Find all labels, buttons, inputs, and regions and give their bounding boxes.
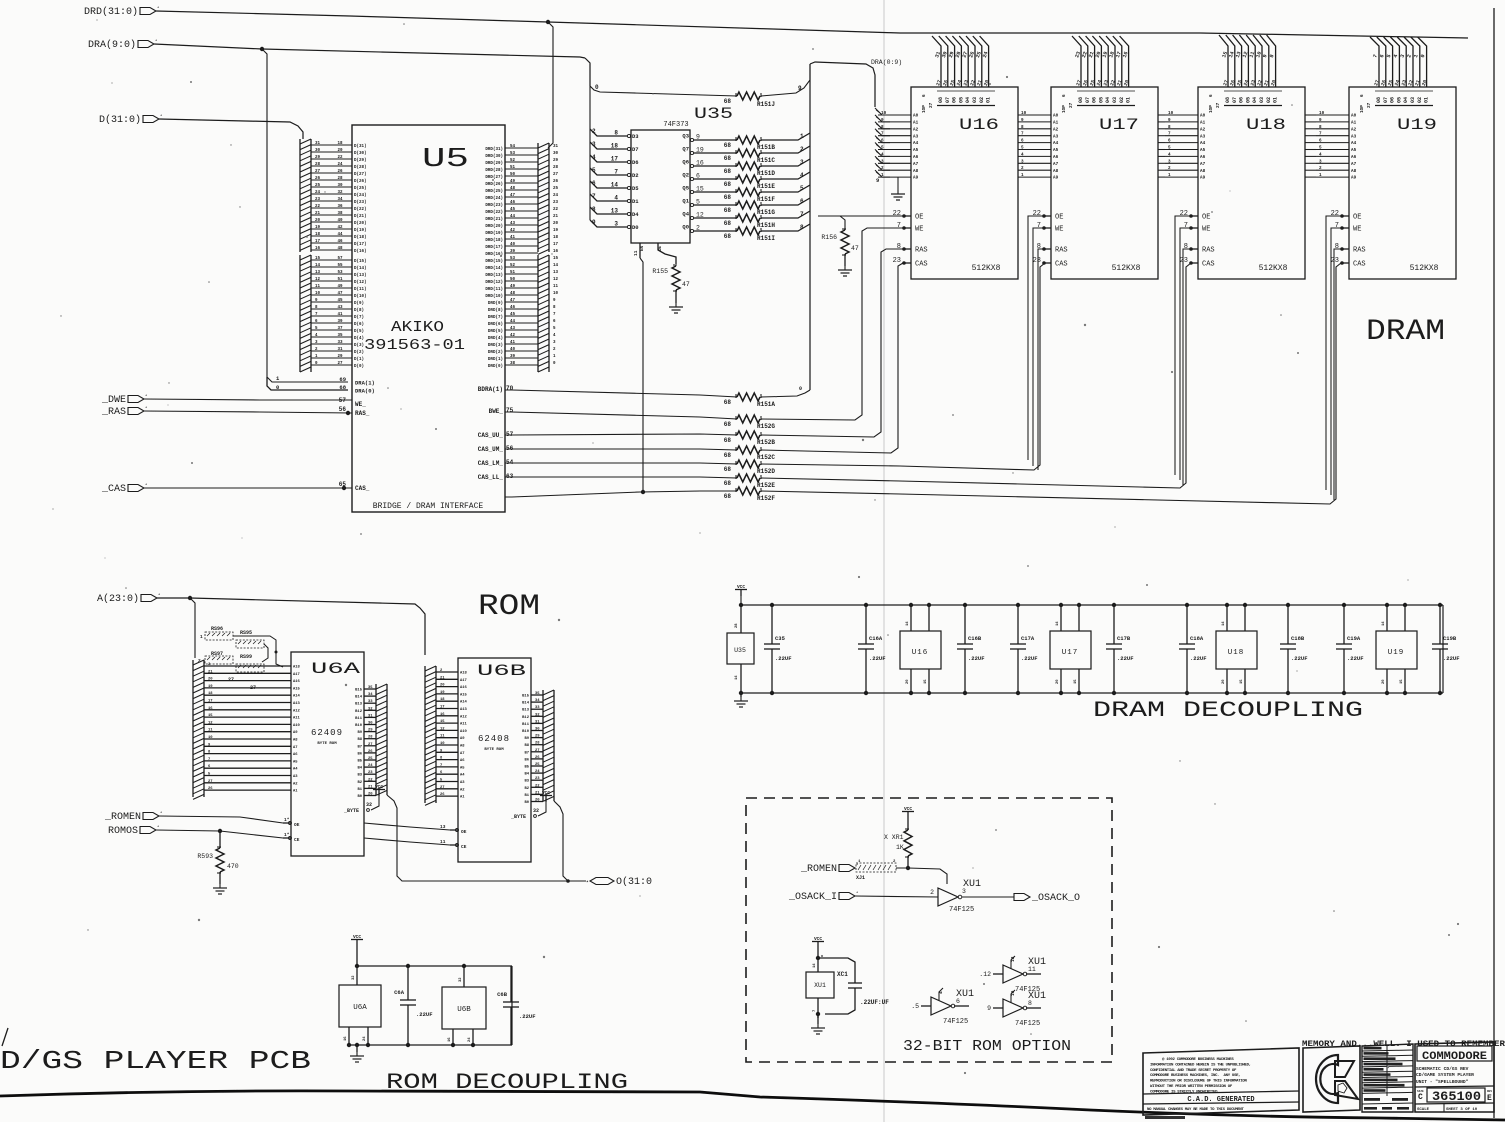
svg-text:9: 9 [1021,118,1024,123]
svg-text:C17B: C17B [1117,635,1131,642]
svg-text:15: 15 [440,720,445,724]
U6B address pins with bus ribbon [425,666,468,805]
svg-text:A4: A4 [293,768,298,772]
svg-text:7: 7 [897,222,901,230]
svg-text:62409: 62409 [311,728,343,738]
ROM decoupling right end [511,966,513,1045]
U5 left pins D(31:16) with bus ribbon [300,139,367,254]
IC U35 74F373 body [631,130,690,243]
svg-text:B7: B7 [357,745,362,749]
svg-text:D(18): D(18) [354,235,367,240]
svg-text:24: 24 [315,191,321,195]
svg-text:WITHOUT THE PRIOR WRITTEN PERM: WITHOUT THE PRIOR WRITTEN PERMISSION OF [1150,1085,1233,1089]
svg-text:A8: A8 [1200,169,1206,174]
ground at U16 NC pin [897,177,899,190]
svg-text:WE: WE [1353,226,1361,234]
svg-text:31: 31 [535,720,540,724]
wire _DWE to U5 WE_ [144,399,352,400]
svg-text:18: 18 [440,698,445,702]
svg-text:9: 9 [1168,118,1171,123]
svg-text:U5: U5 [422,145,469,175]
svg-text:A7: A7 [1053,162,1059,167]
U6A CE pin [283,837,291,839]
svg-text:03: 03 [1410,97,1416,103]
svg-text:44: 44 [337,233,343,237]
svg-text:A3: A3 [913,134,919,139]
svg-text:D0: D0 [632,224,639,231]
wire DRA bus bend down to U35 input fan [585,58,590,86]
DRAM IC U18 address pins A0-A9 [1165,111,1206,181]
svg-text:68: 68 [724,452,732,459]
svg-text:B3: B3 [357,774,362,778]
svg-text:A7: A7 [913,162,919,167]
svg-text:SCHEMATIC CD/GS REV: SCHEMATIC CD/GS REV [1416,1066,1469,1072]
svg-text:D(16): D(16) [354,249,367,254]
capacitor C6B .22UF [497,966,535,1045]
svg-text:13: 13 [553,271,559,275]
capacitor C6A .22UF [394,964,432,1047]
svg-text:DRD(29): DRD(29) [485,161,503,166]
svg-text:A4: A4 [1351,141,1357,146]
wire DRA drop to U5 DRA pins [262,49,348,382]
svg-text:20: 20 [337,149,343,153]
resistor R156 47 ohm pull on U16 OE line [818,216,859,266]
svg-text:1K: 1K [896,844,904,851]
svg-text:26: 26 [337,170,343,174]
svg-text:*: * [160,811,162,816]
svg-text:20: 20 [368,793,373,797]
title block scale and sheet row [1415,1103,1494,1112]
svg-text:R151A: R151A [757,401,775,408]
svg-text:05: 05 [1098,97,1104,103]
svg-text:07: 07 [1232,97,1238,103]
capacitor C19A .22UF [1336,603,1364,695]
svg-text:D(2): D(2) [354,350,364,355]
svg-text:18: 18 [337,142,343,146]
svg-text:A5: A5 [1053,148,1059,153]
svg-text:U6A: U6A [353,1004,367,1012]
svg-text:B8: B8 [524,744,529,748]
svg-text:A3: A3 [1351,134,1357,139]
svg-text:XC1: XC1 [837,971,848,978]
svg-text:51: 51 [337,278,343,282]
svg-text:A6: A6 [913,155,919,160]
ground below XU1 [816,1012,820,1016]
svg-text:D4: D4 [632,211,639,218]
svg-text:27: 27 [1069,102,1074,108]
svg-text:DRD(8): DRD(8) [488,308,503,313]
tri-state buffer XU1 gate C [979,956,1046,994]
svg-text:D(15): D(15) [354,259,367,264]
svg-text:6: 6 [1319,139,1322,144]
svg-text:DRD(2): DRD(2) [488,350,503,355]
jumper XJ1 [856,860,896,881]
svg-text:33: 33 [368,700,373,704]
DRAM IC U19 top pin name column labels [1360,91,1433,113]
svg-text:23: 23 [1331,257,1339,265]
svg-text:B14: B14 [522,702,530,706]
svg-text:07: 07 [945,97,951,103]
svg-text:01: 01 [1273,97,1279,103]
svg-text:15: 15 [924,679,928,684]
svg-text:DRD(28): DRD(28) [485,168,503,173]
svg-text:UNIT - "SPELLBOUND": UNIT - "SPELLBOUND" [1416,1079,1469,1085]
svg-text:B0: B0 [524,801,529,805]
svg-text:_BYTE: _BYTE [510,814,526,820]
tri-state buffer XU1 gate B [911,988,974,1026]
svg-text:9: 9 [987,1005,991,1012]
svg-text:22: 22 [368,778,373,782]
svg-text:WE_: WE_ [355,401,366,408]
svg-text:8: 8 [1037,243,1041,251]
svg-text:D(3): D(3) [354,343,364,348]
ground below R155 [675,290,677,303]
svg-text:7: 7 [800,211,804,218]
svg-text:B3: B3 [524,780,529,784]
svg-text:0: 0 [276,384,279,391]
svg-text:74F125: 74F125 [943,1018,968,1026]
capacitor C35 .22UF [764,603,792,695]
wire U35 EN down to R152F row [640,258,643,492]
svg-text:16: 16 [344,1036,348,1041]
svg-text:WE: WE [1055,226,1063,234]
ROM decoupling top rail [357,965,512,967]
junction R152F line with U35 EN riser [641,490,645,494]
DRAM IC U17 512KX8 body [1051,87,1158,279]
svg-text:46: 46 [510,306,516,310]
svg-text:ROM DECOUPLING: ROM DECOUPLING [386,1070,628,1095]
svg-text:2: 2 [800,146,804,153]
svg-text:A8: A8 [913,169,919,174]
title block drawing number 365100 [1415,1086,1494,1104]
svg-text:8: 8 [1168,125,1171,130]
svg-text:42: 42 [510,229,516,233]
svg-text:A9: A9 [1200,176,1206,181]
svg-text:R151C: R151C [757,157,775,164]
svg-text:DRD(15): DRD(15) [485,259,503,264]
svg-text:391563-01: 391563-01 [364,337,465,354]
svg-text:04: 04 [965,97,971,103]
svg-text:41: 41 [510,341,516,345]
svg-text:D(8): D(8) [354,308,364,313]
svg-text:25: 25 [315,184,321,188]
svg-text:A7: A7 [293,746,298,750]
svg-text:25: 25 [553,187,559,191]
svg-text:53: 53 [510,152,516,156]
svg-text:A4: A4 [1200,141,1206,146]
svg-text:DRD(12): DRD(12) [485,280,503,285]
svg-text:C16B: C16B [968,635,982,642]
address bus links U17-U18 [1158,115,1165,177]
svg-text:30: 30 [337,184,343,188]
svg-text:14: 14 [611,182,619,189]
svg-text:XU1: XU1 [956,989,974,1000]
svg-text:*: * [145,406,147,411]
svg-text:40: 40 [510,243,516,247]
U5 left pins D(15:0) with bus ribbon [300,255,367,372]
svg-text:1: 1 [800,133,804,140]
svg-text:27: 27 [315,170,321,174]
svg-text:DRD(13): DRD(13) [485,273,503,278]
svg-text:B13: B13 [522,709,530,713]
svg-text:05: 05 [958,97,964,103]
svg-text:B2: B2 [524,787,529,791]
svg-text:18: 18 [208,692,213,696]
svg-text:RS99: RS99 [240,654,252,660]
wire U6B data bus down to D(31:0) output [554,801,568,881]
svg-text:512KX8: 512KX8 [1410,264,1439,273]
svg-text:A12: A12 [460,715,468,719]
svg-text:SCALE: SCALE [1417,1108,1430,1112]
svg-text:20: 20 [208,678,213,682]
svg-text:6: 6 [1360,94,1365,97]
svg-text:10: 10 [440,742,445,746]
svg-text:23: 23 [535,777,540,781]
svg-text:8: 8 [1319,125,1322,130]
svg-text:4: 4 [1319,152,1322,157]
svg-text:A3: A3 [1053,134,1059,139]
svg-text:11: 11 [553,285,559,289]
svg-text:A6: A6 [460,759,465,763]
svg-text:A3: A3 [460,781,465,785]
svg-text:16: 16 [440,713,445,717]
svg-text:D(10): D(10) [354,294,367,299]
svg-text:19: 19 [208,685,213,689]
DRA bus fan into U16 address pins [875,108,890,184]
svg-text:_BYTE: _BYTE [343,808,359,814]
wire D bus to U5 left ribbon [159,119,303,139]
svg-text:R152E: R152E [757,482,775,489]
svg-text:22: 22 [1033,210,1041,218]
svg-text:D(1): D(1) [354,357,364,362]
svg-text:32: 32 [337,191,343,195]
svg-text:38: 38 [510,362,516,366]
U6B data pins with ribbon to output bus [522,690,554,805]
svg-text:02: 02 [1119,97,1125,103]
wire DRA bus [154,44,585,58]
svg-text:B11: B11 [355,717,363,721]
svg-text:A5: A5 [1351,148,1357,153]
svg-text:DRA(9:0): DRA(9:0) [88,39,136,51]
svg-text:D6: D6 [632,159,639,166]
U35 input fan from DRA bus with pins D0-D7 [590,86,639,231]
svg-text:21: 21 [208,670,213,674]
svg-text:2: 2 [1168,166,1171,171]
svg-text:C35: C35 [775,635,786,642]
svg-text:5: 5 [1021,146,1024,151]
svg-text:31: 31 [368,714,373,718]
svg-text:0: 0 [595,84,599,91]
svg-text:A8: A8 [293,739,298,743]
svg-text:27: 27 [440,786,445,790]
capacitor C18A .22UF [1179,603,1207,695]
svg-text:D(29): D(29) [354,158,367,163]
svg-text:01: 01 [986,97,992,103]
junction at RAS pin [346,411,350,415]
svg-text:B9: B9 [524,737,529,741]
svg-text:A18: A18 [293,666,301,670]
svg-text:15: 15 [1074,679,1078,684]
svg-text:22: 22 [553,208,559,212]
svg-text:13: 13 [315,271,321,275]
svg-text:D(19): D(19) [354,228,367,233]
svg-text:OE: OE [1202,214,1210,222]
svg-text:D7: D7 [632,146,639,153]
svg-text:47: 47 [510,194,516,198]
svg-text:CE: CE [294,837,300,843]
svg-text:DRD(18): DRD(18) [485,238,503,243]
svg-text:10: 10 [1168,111,1174,116]
svg-text:D(17): D(17) [354,242,367,247]
svg-text:A9: A9 [1053,176,1059,181]
svg-text:8: 8 [592,206,596,213]
svg-text:B12: B12 [522,716,530,720]
ROM IC U6A body [291,652,364,856]
svg-text:DRAM DECOUPLING: DRAM DECOUPLING [1093,698,1363,723]
capacitor XC1 .22UF [818,958,889,1014]
svg-text:C19A: C19A [1347,635,1361,642]
svg-text:27: 27 [208,780,213,784]
svg-text:A(23:0): A(23:0) [97,593,139,605]
svg-text:08: 08 [938,97,944,103]
svg-text:49: 49 [337,285,343,289]
svg-text:68: 68 [724,142,732,149]
svg-text:DRA(1): DRA(1) [355,380,375,387]
svg-text:53: 53 [337,271,343,275]
wire BDRA(1) from U5 to R151A [505,390,737,397]
svg-text:DRD(27): DRD(27) [485,175,503,180]
svg-text:OE: OE [659,245,663,251]
svg-text:74F125: 74F125 [1015,1020,1040,1028]
page border bottom line [0,1091,1505,1120]
wire buffer to _OSACK_O [962,896,1014,898]
svg-text:A7: A7 [460,752,465,756]
svg-text:B4: B4 [524,773,529,777]
svg-text:47: 47 [337,292,343,296]
U6A address pins with bus ribbon [193,660,301,799]
svg-text:COMMODORE BUSINESS MACHINES, I: COMMODORE BUSINESS MACHINES, INC. ANY US… [1150,1074,1240,1078]
svg-text:32: 32 [352,975,356,980]
svg-text:D2: D2 [632,172,639,179]
svg-text:@ 1992 COMMODORE BUSINESS MACH: @ 1992 COMMODORE BUSINESS MACHINES [1162,1057,1234,1062]
svg-text:*: * [856,891,858,896]
svg-text:2: 2 [1021,166,1024,171]
svg-text:_ROMEN: _ROMEN [800,864,837,875]
svg-text:27: 27 [1216,102,1221,108]
svg-text:5: 5 [1319,146,1322,151]
svg-text:D(21): D(21) [354,214,367,219]
svg-text:28: 28 [368,736,373,740]
svg-text:A2: A2 [913,127,919,132]
svg-text:26: 26 [315,177,321,181]
svg-text:17: 17 [553,243,559,247]
svg-text:CONFIDENTIAL AND TRADE SECRET: CONFIDENTIAL AND TRADE SECRET PROPERTY O… [1150,1069,1237,1073]
svg-text:A8: A8 [1053,169,1059,174]
svg-text:D(5): D(5) [354,329,364,334]
output connector _OSACK_O [1014,894,1030,901]
svg-text:3: 3 [1319,159,1322,164]
svg-text:DRD(31): DRD(31) [485,147,503,152]
svg-text:3: 3 [1168,159,1171,164]
resistor pack RS95 [236,630,264,648]
title block copyright box [1143,1048,1299,1115]
svg-text:29: 29 [368,729,373,733]
svg-text:ROMOS: ROMOS [108,826,138,837]
svg-text:23: 23 [893,257,901,265]
svg-text:4: 4 [1168,152,1171,157]
svg-text:_OSACK_I: _OSACK_I [788,892,837,903]
svg-text:D(22): D(22) [354,207,367,212]
svg-text:DRD(10): DRD(10) [485,294,503,299]
svg-text:B15: B15 [522,695,530,699]
U16 decoupling block [900,603,941,695]
U6B BYTE pin with VCC [510,790,552,820]
svg-text:6: 6 [1062,94,1067,97]
svg-text:A0: A0 [1200,114,1206,119]
svg-text:02: 02 [1417,97,1423,103]
svg-text:A9: A9 [1351,176,1357,181]
svg-text:7: 7 [1037,222,1041,230]
svg-text:X XR1: X XR1 [884,834,904,841]
svg-text:35: 35 [368,686,373,690]
svg-text:DRD(6): DRD(6) [488,322,503,327]
svg-text:17: 17 [440,706,445,710]
resistor R152G 68 ohm [724,415,776,430]
junction DRD bus to U5 right ribbon [546,20,550,24]
U6A OE pin [283,822,291,824]
svg-text:D(31): D(31) [354,144,367,149]
svg-text:XU1: XU1 [814,982,826,989]
svg-text:CAS: CAS [915,261,928,269]
svg-text:10: 10 [1021,111,1027,116]
junction data buses [566,879,570,883]
wire U6A data bus down to D(31:0) output [387,795,586,881]
svg-text:27: 27 [337,362,343,366]
svg-text:70: 70 [506,385,514,392]
wire R152F to U19 CAS riser [761,263,1349,504]
svg-text:DRAM: DRAM [1366,315,1445,349]
svg-text:COMMODORE: COMMODORE [1422,1051,1487,1063]
svg-text:18: 18 [553,236,559,240]
svg-text:DRD(19): DRD(19) [485,231,503,236]
svg-text:B11: B11 [522,723,530,727]
svg-text:08: 08 [1078,97,1084,103]
svg-text:22: 22 [535,784,540,788]
svg-text:C19B: C19B [1443,635,1457,642]
U5 right pins DRD(15:0) with bus ribbon [485,255,558,372]
svg-text:05: 05 [1396,97,1402,103]
svg-text:30: 30 [315,149,321,153]
svg-text:07: 07 [1085,97,1091,103]
svg-text:24: 24 [368,764,373,768]
resistor pack RS96 [200,626,233,640]
svg-text:U19: U19 [1388,649,1405,657]
svg-text:39: 39 [510,250,516,254]
svg-text:22: 22 [1331,210,1339,218]
svg-text:A2: A2 [1351,127,1357,132]
svg-text:8: 8 [1184,243,1188,251]
svg-text:54: 54 [510,145,516,149]
svg-text:DRA(0:9): DRA(0:9) [871,59,902,66]
svg-text:04: 04 [1252,97,1258,103]
svg-text:6: 6 [800,198,804,205]
ROM IC U6B body [458,658,531,862]
svg-text:21: 21 [315,212,321,216]
DRAM IC U19 512KX8 body [1349,87,1456,279]
DRAM IC U17 control pins OE WE RAS CAS [1033,210,1068,269]
svg-text:68: 68 [724,466,732,473]
svg-text:22: 22 [337,156,343,160]
